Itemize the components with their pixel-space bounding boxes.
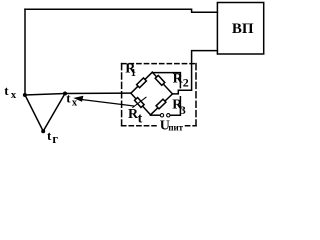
resistor R2 body bbox=[155, 75, 165, 85]
svg-text:ВП: ВП bbox=[232, 21, 254, 37]
dashed enclosure: bottom edge left part bbox=[122, 125, 156, 127]
terminal circle Upit 2 bbox=[167, 114, 170, 117]
junction dot node t_x right bbox=[63, 92, 67, 96]
wire bottom vertex to Upit terminal 1 bbox=[151, 114, 161, 116]
junction dot node t_g bbox=[41, 129, 45, 133]
terminal circle Upit 1 bbox=[160, 114, 163, 117]
wire thermocouple branch t_g to t_x bbox=[43, 94, 65, 132]
thermistor Rt strike line bbox=[133, 97, 146, 107]
dashed enclosure of bridge: top edge bbox=[122, 63, 196, 65]
bridge arm lower-right (R3) bbox=[151, 94, 173, 115]
wire thermocouple lead left vertical bbox=[24, 9, 26, 94]
bridge arm upper-left (R1) bbox=[131, 72, 152, 93]
dashed enclosure: bottom edge right part bbox=[186, 125, 197, 127]
wire thermocouple branch t_x to t_g bbox=[25, 95, 43, 131]
arrowhead pointing to t_x junction bbox=[73, 96, 83, 102]
resistor R3 body bbox=[156, 99, 166, 109]
dashed enclosure: right edge bbox=[195, 64, 197, 126]
box VP (secondary instrument) bbox=[217, 3, 263, 55]
dashed enclosure: left edge bbox=[121, 64, 123, 126]
bridge arm lower-left (Rt) bbox=[131, 93, 151, 115]
wire supply continued below crossing bbox=[170, 97, 180, 116]
wire bridge supply diagonal: top vertex to Upit terminal 2 bbox=[152, 73, 180, 88]
svg-text:R1: R1 bbox=[125, 62, 136, 79]
wire main horizontal t_x to bridge left vertex bbox=[25, 93, 131, 95]
arrow Rt to junction t_x bbox=[80, 99, 134, 106]
wire bridge output to VP bbox=[173, 51, 218, 94]
junction dot node t_x left bbox=[23, 93, 27, 97]
resistor Rt body (thermistor) bbox=[135, 98, 145, 108]
wire thermocouple lead top horizontal to VP bbox=[25, 9, 217, 12]
resistor R1 body bbox=[137, 78, 147, 88]
bridge arm upper-right (R2) bbox=[152, 72, 172, 94]
